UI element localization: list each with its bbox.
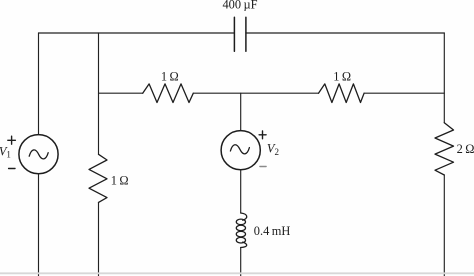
svg-text:0.4 mH: 0.4 mH <box>254 224 291 238</box>
wire bottom return (cropped, faint) <box>0 272 474 274</box>
wire left vertical lower <box>38 174 40 276</box>
svg-text:V1: V1 <box>0 144 11 159</box>
svg-text:400 µF: 400 µF <box>222 0 257 12</box>
wire right vertical lower <box>443 175 445 276</box>
source V2 plus sign <box>259 131 266 139</box>
wire top-left horizontal segment <box>39 32 235 34</box>
wire right vertical upper <box>443 33 445 123</box>
source V2 circle <box>221 131 260 170</box>
resistor R1 1 ohm horizontal zigzag <box>143 84 194 103</box>
inductor L1 coil <box>236 213 246 248</box>
wire top-right horizontal segment <box>246 32 444 34</box>
wire second vertical lower <box>98 202 100 276</box>
svg-text:1 Ω: 1 Ω <box>111 174 129 188</box>
svg-text:1 Ω: 1 Ω <box>333 70 351 84</box>
resistor R4 2 ohm vertical zigzag <box>435 123 454 175</box>
wire left vertical upper <box>38 33 40 135</box>
resistor R3 1 ohm vertical zigzag <box>89 154 107 202</box>
wire middle horizontal segment right <box>364 92 444 94</box>
source V2 sine symbol <box>230 145 249 154</box>
source V1 minus sign <box>9 168 15 170</box>
svg-text:V2: V2 <box>267 142 279 157</box>
wire second vertical upper <box>98 33 100 154</box>
wire V2 branch lower <box>240 170 242 213</box>
source V1 plus sign <box>8 136 16 144</box>
svg-text:2 Ω: 2 Ω <box>457 142 474 156</box>
source V1 sine symbol <box>29 150 48 159</box>
svg-text:1 Ω: 1 Ω <box>161 70 179 84</box>
wire V2 branch bottom <box>240 248 242 276</box>
capacitor C1 plates <box>234 17 246 51</box>
source V2 minus sign <box>260 166 266 168</box>
wire V2 branch upper <box>240 93 242 130</box>
wire middle horizontal segment left <box>99 92 143 94</box>
resistor R2 1 ohm horizontal zigzag <box>319 84 365 103</box>
source V1 circle <box>19 135 58 174</box>
wire middle horizontal segment center <box>193 92 318 94</box>
